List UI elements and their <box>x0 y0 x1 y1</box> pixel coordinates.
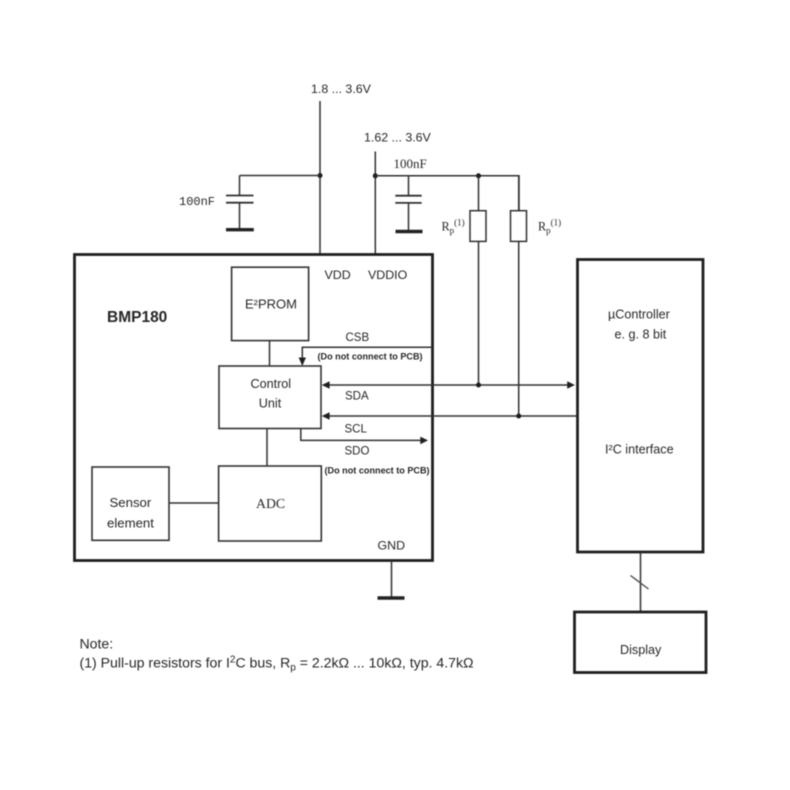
block ADC <box>219 466 322 541</box>
wire R2 bottom to SCL <box>518 241 520 416</box>
ground symbol C2 <box>396 230 423 233</box>
wire SCL horizontal <box>327 415 578 417</box>
block microcontroller U2 <box>578 260 704 553</box>
wire E2PROM to Control Unit <box>269 341 271 366</box>
svg-text:E²PROM: E²PROM <box>245 297 297 312</box>
resistor R1 <box>470 211 486 242</box>
wire R1 top <box>478 176 480 211</box>
svg-text:CSB: CSB <box>346 332 370 344</box>
wire VDD supply vertical <box>319 101 321 254</box>
block E2PROM <box>232 267 309 340</box>
svg-text:(Do not connect to PCB): (Do not connect to PCB) <box>318 352 423 362</box>
svg-text:100nF: 100nF <box>179 195 215 209</box>
arrowhead SDO right <box>420 437 428 445</box>
svg-text:e. g. 8 bit: e. g. 8 bit <box>615 328 667 342</box>
wire SDA horizontal <box>327 384 569 386</box>
svg-text:Unit: Unit <box>259 397 282 411</box>
node VDD junction <box>318 173 323 178</box>
node R1 rail junction <box>476 173 481 178</box>
svg-text:ADC: ADC <box>256 496 285 511</box>
wire R2 top <box>518 176 520 211</box>
ground symbol GND <box>378 596 405 599</box>
node SDA R1 junction <box>476 383 481 388</box>
svg-text:1.62 ... 3.6V: 1.62 ... 3.6V <box>364 131 432 145</box>
block Display <box>575 612 707 673</box>
arrowhead SDA left <box>322 381 330 389</box>
label microcontroller <box>605 308 674 457</box>
svg-text:1.8 ... 3.6V: 1.8 ... 3.6V <box>311 82 372 96</box>
BMP180 main box <box>75 255 433 561</box>
svg-text:GND: GND <box>378 539 406 553</box>
svg-text:Note:: Note: <box>80 636 114 652</box>
svg-text:SDA: SDA <box>345 391 369 403</box>
svg-text:BMP180: BMP180 <box>107 309 167 326</box>
svg-text:µController: µController <box>608 308 670 322</box>
wire Sensor element to ADC <box>169 502 219 504</box>
capacitor C1 100nF <box>226 176 254 229</box>
wire SDO from Control Unit <box>301 429 423 441</box>
wire CSB from right edge <box>302 347 432 360</box>
bus slash mark <box>631 576 649 590</box>
node VDDIO junction <box>373 173 378 178</box>
svg-text:100nF: 100nF <box>394 156 427 171</box>
svg-text:Display: Display <box>620 643 662 657</box>
svg-text:SDO: SDO <box>345 446 370 458</box>
block Sensor element <box>92 467 169 540</box>
wire Control Unit to ADC <box>266 429 268 467</box>
node SCL R2 junction <box>516 414 521 419</box>
svg-text:Sensor: Sensor <box>110 495 152 510</box>
svg-text:VDD: VDD <box>325 268 351 282</box>
ground symbol C1 <box>226 228 254 231</box>
svg-text:Rp(1): Rp(1) <box>442 218 465 236</box>
svg-text:(1) Pull-up resistors for I2C: (1) Pull-up resistors for I2C bus, Rp = … <box>80 655 474 674</box>
svg-text:VDDIO: VDDIO <box>368 268 408 282</box>
capacitor C2 100nF <box>395 176 421 230</box>
wire VDDIO rail horizontal to R2 <box>375 176 519 211</box>
wire microcontroller to display <box>640 552 642 612</box>
svg-text:Control: Control <box>251 377 292 391</box>
label Sensor element <box>107 495 154 531</box>
svg-text:Rp(1): Rp(1) <box>538 218 561 236</box>
wire GND vertical <box>391 561 393 597</box>
svg-text:SCL: SCL <box>345 424 368 436</box>
wire VDDIO supply vertical <box>374 152 376 255</box>
arrowhead SDA right <box>567 381 575 389</box>
svg-text:I²C interface: I²C interface <box>605 443 674 457</box>
label Control Unit <box>251 377 292 411</box>
wire R1 bottom to SDA <box>478 241 480 385</box>
svg-text:element: element <box>107 516 154 531</box>
block Control Unit <box>219 366 321 429</box>
resistor R2 <box>511 211 527 242</box>
svg-text:(Do not connect to PCB): (Do not connect to PCB) <box>325 466 430 476</box>
arrowhead CSB down <box>299 358 306 367</box>
arrowhead SCL left <box>322 412 330 420</box>
wire C1 top horizontal <box>240 175 321 177</box>
